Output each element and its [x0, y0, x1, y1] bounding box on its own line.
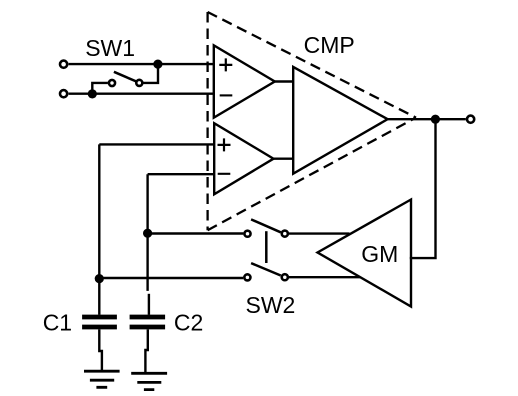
junction dot output node [431, 115, 440, 124]
comparator core triangle [293, 67, 387, 174]
junction dot on C1 net [95, 274, 104, 283]
switch SW2 top contact right [282, 231, 288, 237]
junction dot A on input1 wire [153, 60, 162, 69]
wire A1 output to CMP core [275, 80, 293, 82]
wire C1 to ground [99, 330, 102, 371]
junction dot on C2 net [143, 229, 152, 238]
wire vertical net to C2 lower segment [148, 294, 150, 315]
switch SW1 lever [114, 72, 137, 82]
wire SW2 bottom to GM [289, 276, 361, 278]
input terminal bottom [60, 90, 67, 97]
wire SW1 to dot A [144, 64, 159, 83]
ground C1 [84, 371, 120, 387]
wire vertical net to C2 upper segment [146, 174, 148, 291]
switch SW1 contact right [136, 80, 142, 86]
wire riser from dot B [92, 83, 108, 94]
svg-text:CMP: CMP [304, 32, 355, 58]
switch SW2 bottom contact left [244, 274, 250, 280]
svg-text:C2: C2 [174, 310, 203, 336]
wire A2 plus input feed [99, 143, 214, 145]
wire A2 output to CMP core [274, 157, 294, 159]
wire SW2 top to GM [289, 232, 350, 234]
pin plus A1 [219, 58, 232, 71]
wire C2 net to SW2 top [148, 232, 244, 234]
wire input1 to CMP noninverting [69, 63, 214, 65]
switch SW2 top lever [251, 219, 281, 232]
pin minus A2 [218, 173, 231, 175]
svg-text:C1: C1 [43, 310, 72, 336]
svg-text:GM: GM [361, 241, 398, 267]
wire vertical net to C1 [98, 144, 100, 314]
output terminal [467, 116, 474, 123]
junction dot B on input2 wire [88, 89, 97, 98]
ground C2 [131, 373, 167, 389]
pin plus A2 [218, 138, 231, 151]
switch SW2 bottom lever [251, 263, 281, 275]
input terminal top [60, 61, 67, 68]
svg-text:SW2: SW2 [246, 292, 296, 318]
op-amp A2 bottom input stage [214, 123, 273, 194]
wire input2 to CMP inverting [69, 92, 214, 94]
wire output node down to GM output [410, 119, 436, 258]
switch SW1 contact left [109, 80, 115, 86]
op-amp A1 top input stage [214, 45, 275, 117]
amplifier GM [318, 200, 412, 307]
wire CMP output [388, 118, 466, 120]
capacitor C2 bottom plate [130, 325, 166, 330]
switch SW2 bottom contact right [282, 274, 288, 280]
capacitor C1 bottom plate [82, 325, 117, 330]
pin minus A1 [220, 94, 233, 96]
wire C1 net to SW2 bottom [99, 277, 243, 279]
comparator CMP dashed boundary [208, 12, 416, 230]
switch SW2 top contact left [244, 231, 250, 237]
switch SW2 gang link [265, 231, 268, 263]
svg-text:SW1: SW1 [85, 35, 135, 61]
wire A2 minus input feed [148, 173, 215, 175]
capacitor C1 top plate [82, 315, 117, 320]
wire C2 to ground [145, 330, 147, 373]
capacitor C2 top plate [130, 315, 166, 320]
